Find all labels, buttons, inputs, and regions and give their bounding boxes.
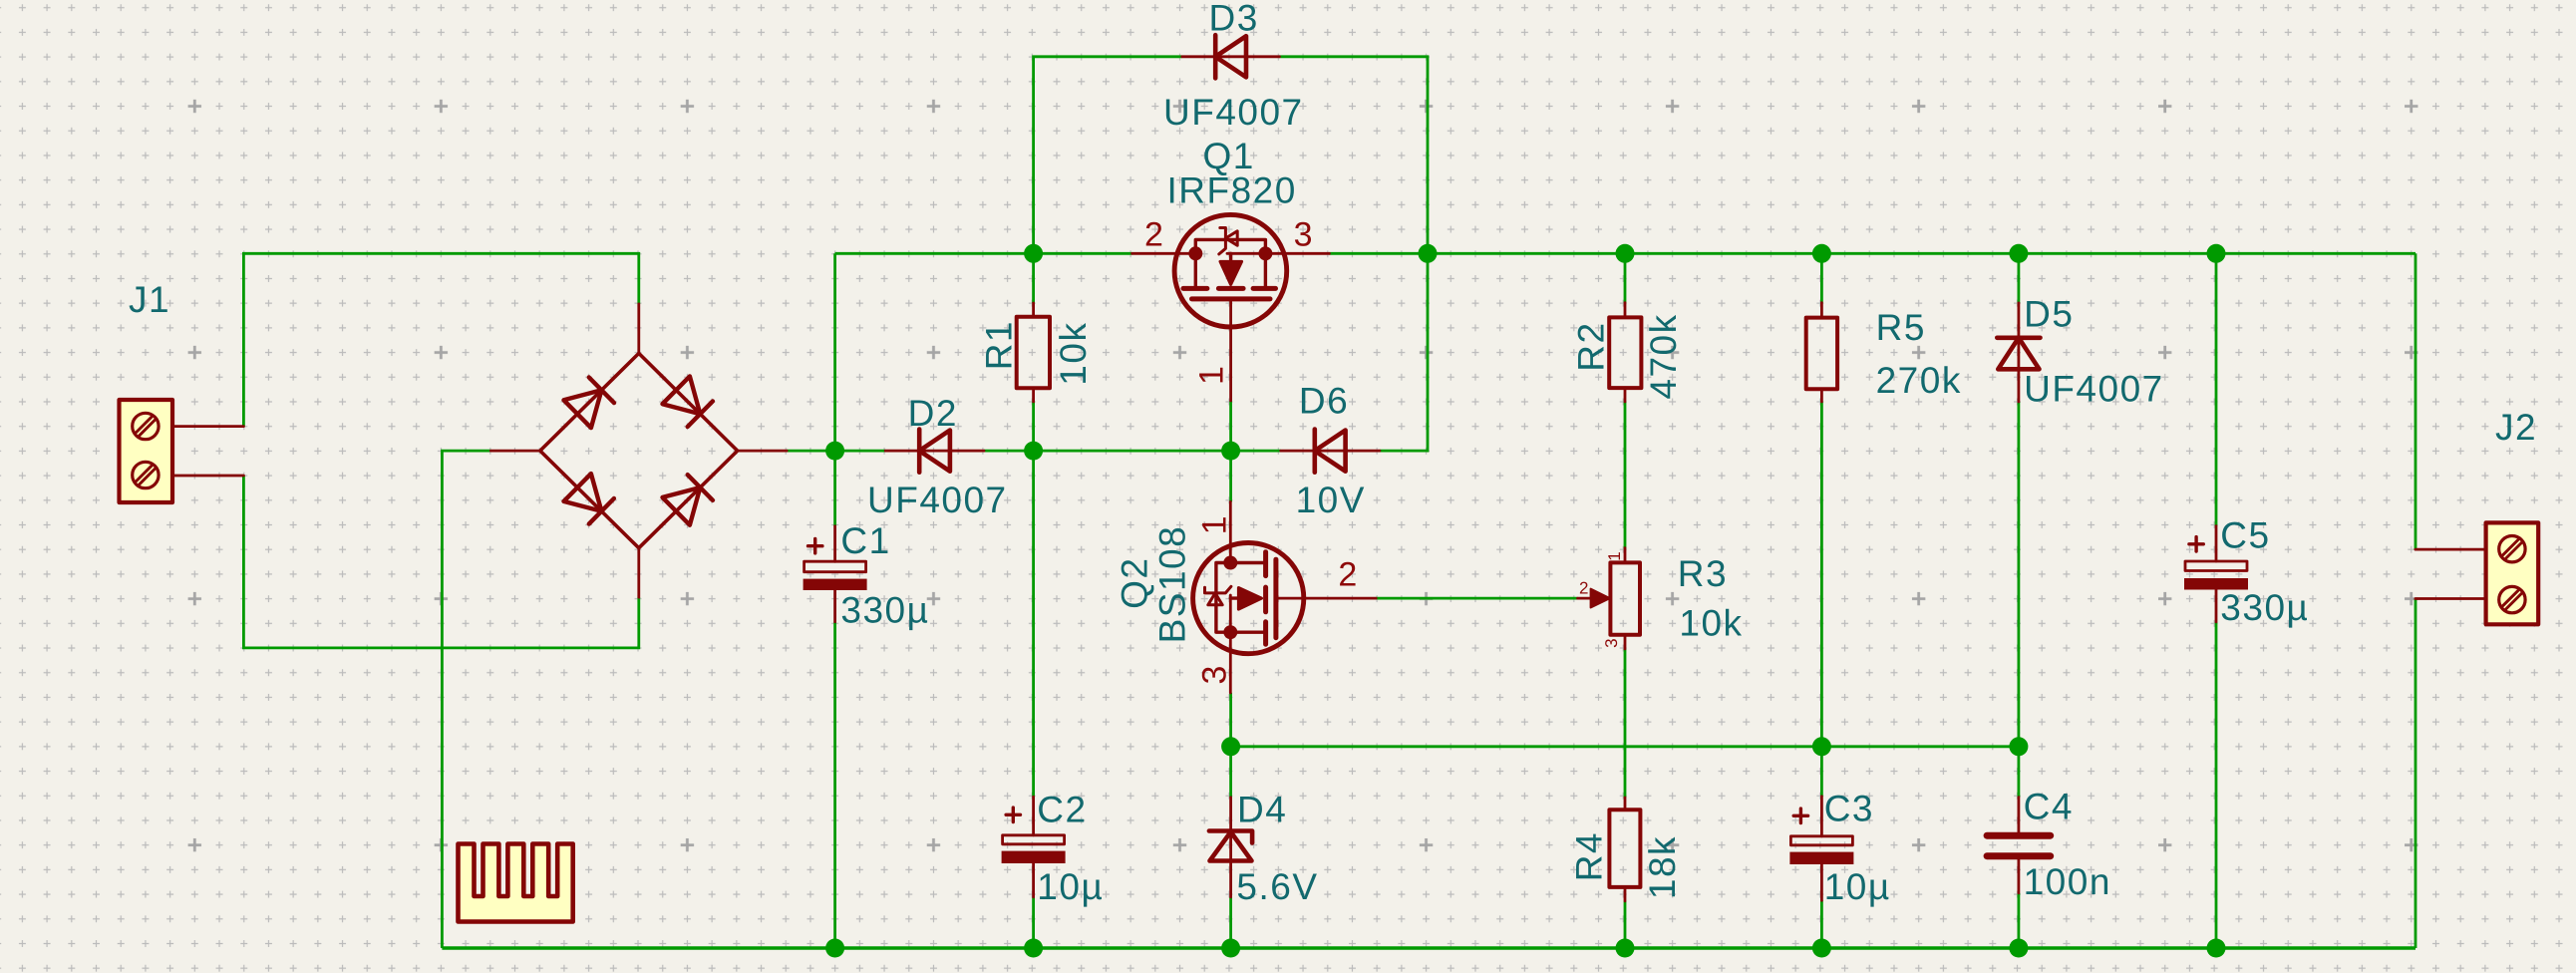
wire C4 bottom <box>2018 893 2021 948</box>
wire D5 top <box>2018 253 2021 303</box>
junction mid rail / Q2 source <box>1221 737 1240 756</box>
capacitor C1 <box>804 526 867 622</box>
svg-text:2: 2 <box>1338 555 1357 593</box>
svg-text:470k: 470k <box>1643 313 1684 399</box>
junction bus / C3 <box>1812 939 1831 958</box>
svg-text:2: 2 <box>1579 579 1588 598</box>
svg-text:1: 1 <box>1196 515 1234 534</box>
junction top rail / D5 <box>2009 244 2028 263</box>
svg-text:10V: 10V <box>1296 480 1366 520</box>
wire C5 bottom <box>2215 622 2218 948</box>
wire J1 pin1 to bridge top <box>243 253 638 426</box>
junction row452 / C1 <box>825 442 844 461</box>
zener D4 5.6V <box>1209 798 1252 897</box>
svg-text:18k: 18k <box>1642 835 1683 899</box>
svg-text:UF4007: UF4007 <box>867 480 1008 520</box>
wire bottom bus <box>442 946 2415 949</box>
svg-text:IRF820: IRF820 <box>1167 170 1297 211</box>
capacitor C2 <box>1002 797 1066 897</box>
diode D2 <box>885 430 984 473</box>
junction top rail / R1-D3 <box>1024 244 1043 263</box>
potentiometer R3 <box>1578 548 1640 649</box>
svg-text:10k: 10k <box>1053 322 1094 386</box>
wire R1 top <box>1032 253 1035 303</box>
wire C1 column top <box>833 253 836 526</box>
svg-text:R5: R5 <box>1876 307 1926 348</box>
svg-text:D2: D2 <box>908 393 958 434</box>
svg-text:Q2: Q2 <box>1115 557 1155 609</box>
wire J1 pin2 to bridge bottom <box>243 476 638 648</box>
wire Q1 drain down <box>1229 401 1232 451</box>
wire R1 bottom <box>1032 402 1035 451</box>
wire D4 to bus <box>1229 897 1232 948</box>
svg-text:3: 3 <box>1294 216 1313 254</box>
wire C1 column bottom <box>833 622 836 948</box>
svg-text:1: 1 <box>1605 551 1624 560</box>
svg-text:3: 3 <box>1602 638 1621 647</box>
svg-text:C2: C2 <box>1037 790 1087 830</box>
svg-text:J1: J1 <box>129 279 170 320</box>
svg-text:R1: R1 <box>979 320 1020 370</box>
svg-text:5.6V: 5.6V <box>1236 866 1318 907</box>
svg-text:R4: R4 <box>1569 831 1610 881</box>
junction bus / D4 <box>1221 939 1240 958</box>
junction top rail / R2 <box>1616 244 1635 263</box>
capacitor C4 <box>1987 798 2051 893</box>
junction top rail / D3 right <box>1419 244 1438 263</box>
zener D6 10V <box>1281 430 1380 473</box>
junction bus / R4 <box>1616 939 1635 958</box>
junction mid rail / D5-C4 <box>2009 737 2028 756</box>
wire R2 top <box>1624 253 1627 302</box>
junction bus / C4 <box>2009 939 2028 958</box>
svg-text:D3: D3 <box>1209 0 1259 38</box>
svg-text:10k: 10k <box>1679 602 1743 643</box>
diode D5 <box>1997 303 2040 402</box>
svg-text:C5: C5 <box>2220 515 2270 556</box>
svg-text:C4: C4 <box>2024 787 2074 827</box>
wire Q2 pin2 to R3 wiper <box>1376 597 1577 600</box>
wire top rail <box>835 252 1132 255</box>
capacitor C3 <box>1789 797 1853 900</box>
svg-text:10µ: 10µ <box>1824 866 1891 907</box>
svg-text:D4: D4 <box>1237 790 1287 830</box>
svg-text:330µ: 330µ <box>840 590 929 631</box>
junction bus / C5 <box>2207 939 2226 958</box>
svg-text:UF4007: UF4007 <box>1163 92 1304 133</box>
wire Q2 source down <box>1229 693 1232 798</box>
junction top rail / C5 <box>2207 244 2226 263</box>
bridge diode top-left <box>564 390 602 428</box>
resistor R2 <box>1609 303 1641 402</box>
svg-text:270k: 270k <box>1876 360 1962 401</box>
svg-text:J2: J2 <box>2495 407 2537 448</box>
resistor R5 <box>1806 303 1837 402</box>
svg-text:3: 3 <box>1196 666 1234 685</box>
diode D3 <box>1182 35 1280 78</box>
svg-text:330µ: 330µ <box>2220 587 2309 628</box>
svg-text:D6: D6 <box>1299 381 1349 422</box>
wire D6 cathode up to rail <box>1380 253 1428 451</box>
wire C2 column bottom <box>1032 897 1035 948</box>
wire mid rail <box>1231 745 2019 748</box>
bridge diode bottom-right <box>663 487 701 525</box>
wire R2 to R3 <box>1624 402 1627 548</box>
resistor R1 <box>1017 303 1050 402</box>
junction bus / C1 <box>825 939 844 958</box>
wire C3 bottom <box>1820 900 1823 948</box>
connector J1 <box>120 400 244 502</box>
connector J2 <box>2415 522 2538 624</box>
svg-text:C3: C3 <box>1824 788 1874 828</box>
wire bridge left to bottom bus <box>442 451 490 948</box>
transistor Q1 IRF820 <box>1132 214 1330 400</box>
wire J2 pin1 drop <box>2415 253 2417 549</box>
wire Q2 gate up <box>1229 451 1232 501</box>
wire J2 pin2 drop <box>2415 599 2417 949</box>
wire R5 top <box>1820 253 1823 302</box>
heatsink HS1 <box>459 844 573 922</box>
junction top rail / R5 <box>1812 244 1831 263</box>
wire bridge right to D2 anode <box>787 450 885 453</box>
bridge diode top-right <box>663 376 701 414</box>
resistor R4 <box>1609 798 1640 901</box>
junction row452 / R1-C2 <box>1024 442 1043 461</box>
svg-text:BS108: BS108 <box>1152 525 1193 644</box>
bridge rectifier <box>490 304 787 597</box>
svg-text:R2: R2 <box>1571 321 1612 371</box>
svg-text:R3: R3 <box>1678 553 1728 594</box>
wire R3 to R4 <box>1624 649 1627 798</box>
svg-text:10µ: 10µ <box>1037 866 1104 907</box>
svg-text:C1: C1 <box>840 520 890 561</box>
transistor Q2 BS108 <box>1193 501 1377 693</box>
svg-text:D5: D5 <box>2024 293 2074 334</box>
wire top rail right of Q1 <box>1329 252 2415 255</box>
wire D5 to C4 <box>2018 402 2021 798</box>
wire R5 to mid rail <box>1820 402 1823 797</box>
svg-text:UF4007: UF4007 <box>2024 369 2164 410</box>
capacitor C5 <box>2184 526 2248 622</box>
wire D2 cathode to D6 anode <box>984 450 1281 453</box>
junction row452 / Q1-Q2 <box>1221 442 1240 461</box>
bridge diode bottom-left <box>564 474 602 511</box>
wire D3 left leg <box>1034 57 1182 254</box>
wire C5 top <box>2215 253 2218 525</box>
wire D3 right leg <box>1279 57 1428 254</box>
svg-text:100n: 100n <box>2024 861 2111 902</box>
junction bus / C2 <box>1024 939 1043 958</box>
svg-text:2: 2 <box>1144 216 1163 254</box>
wire C2 column top <box>1032 451 1035 797</box>
wire R4 bottom <box>1624 901 1627 948</box>
svg-text:1: 1 <box>1193 366 1231 385</box>
junction mid rail / R5-C3 <box>1812 737 1831 756</box>
